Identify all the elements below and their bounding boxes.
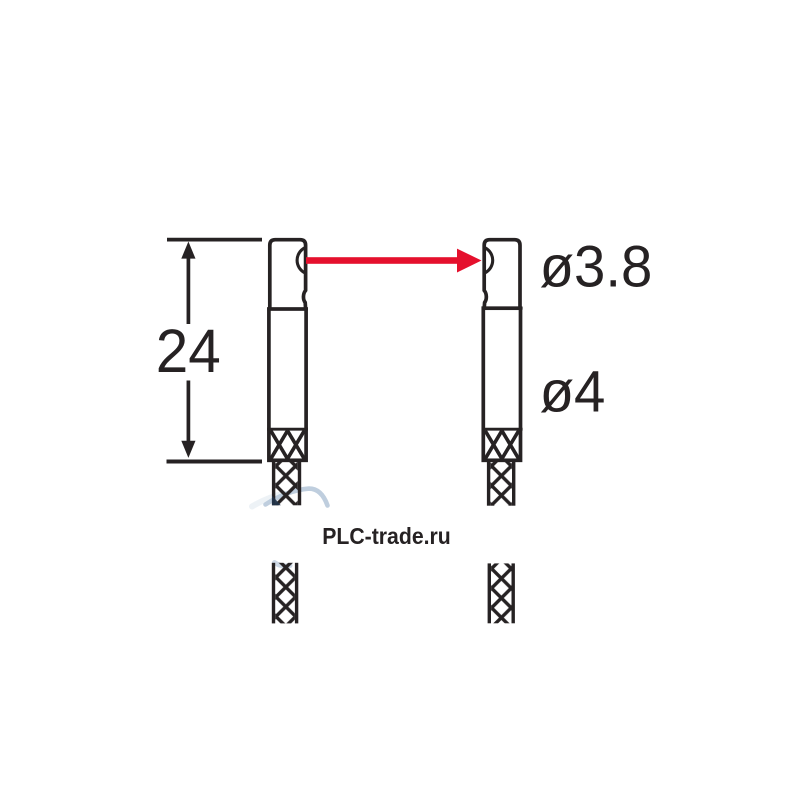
left lens arc xyxy=(297,248,305,273)
dimension arrow up xyxy=(181,242,195,259)
svg-text:PLC-trade.ru: PLC-trade.ru xyxy=(322,523,451,549)
right lens arc xyxy=(485,248,493,273)
label diameter 3.8 xyxy=(540,234,653,299)
left fiber head cap (sensing tip) xyxy=(270,240,306,309)
right fiber head cap (sensing tip) xyxy=(484,240,520,309)
dimension top tick xyxy=(167,238,262,242)
dimension bottom tick xyxy=(167,460,263,464)
right cap-body joint line xyxy=(482,307,523,310)
dimension vertical line upper segment xyxy=(187,252,191,324)
label 24 xyxy=(156,317,221,385)
left lower cable segment xyxy=(274,563,297,624)
dimension vertical line lower segment xyxy=(187,381,191,449)
right lower cable segment xyxy=(489,563,513,623)
left sheath crosshatch xyxy=(271,431,305,459)
red beam arrow xyxy=(306,249,482,273)
svg-text:ø3.8: ø3.8 xyxy=(540,234,653,299)
label diameter 4 xyxy=(540,360,606,425)
watermark text PLC-trade.ru xyxy=(322,523,451,549)
left cable dark wedge (watermark overlap) xyxy=(272,496,281,506)
svg-text:24: 24 xyxy=(156,317,221,385)
right head body xyxy=(483,308,520,460)
left head body xyxy=(269,309,306,460)
dimension arrow down xyxy=(181,441,195,458)
right sheath crosshatch xyxy=(485,431,519,459)
left cap-body joint line xyxy=(267,308,308,311)
right upper cable segment xyxy=(489,462,514,506)
watermark logo arc xyxy=(252,489,328,566)
left upper cable segment xyxy=(274,462,300,506)
svg-text:ø4: ø4 xyxy=(540,360,606,425)
right sheath joint line xyxy=(482,428,523,431)
left sheath joint line xyxy=(267,428,308,431)
